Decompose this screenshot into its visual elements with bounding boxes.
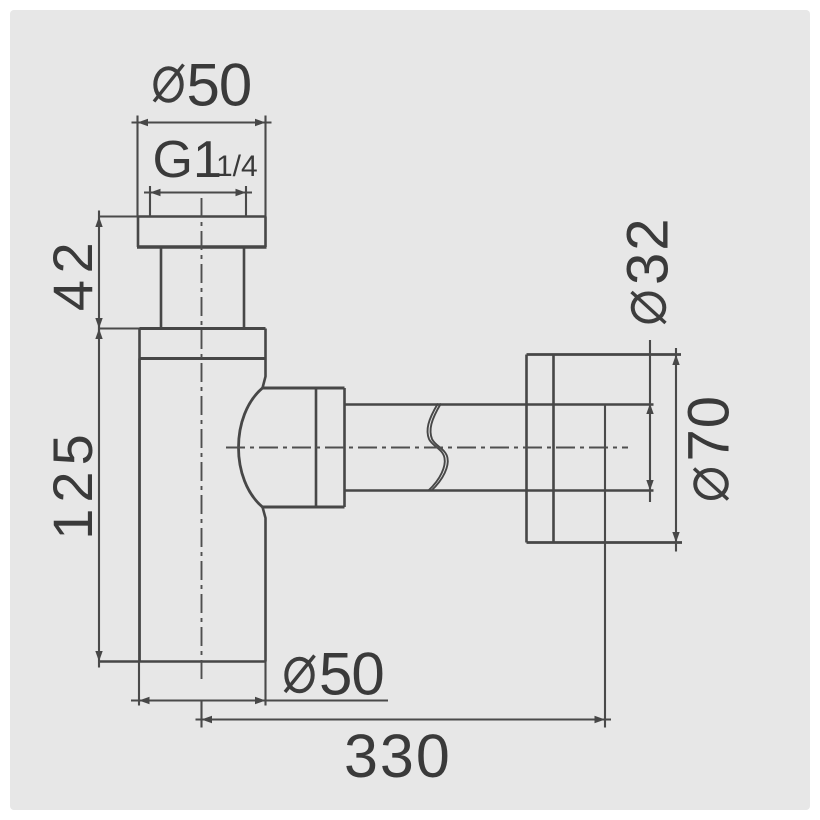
svg-text:330: 330 [344, 722, 452, 790]
svg-text:42: 42 [41, 236, 104, 311]
svg-text:50: 50 [187, 52, 252, 119]
svg-text:32: 32 [616, 217, 681, 286]
svg-text:70: 70 [677, 395, 742, 462]
svg-text:125: 125 [41, 428, 104, 539]
svg-text:G1: G1 [153, 131, 222, 189]
svg-text:1/4: 1/4 [216, 150, 258, 183]
svg-text:50: 50 [319, 641, 384, 708]
